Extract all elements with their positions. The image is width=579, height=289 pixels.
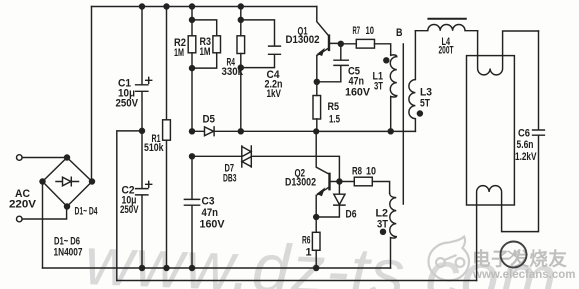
node B 4-way junction — [314, 129, 319, 134]
resistor R3 — [192, 20, 217, 36]
svg-text:3T: 3T — [374, 81, 383, 93]
watermark stamp marks — [508, 251, 518, 259]
capacitor C1 — [136, 7, 148, 131]
node C1-C2 midpoint — [140, 128, 145, 133]
svg-text:10: 10 — [366, 25, 375, 37]
diac D7 DB3 — [192, 146, 339, 182]
svg-text:R6: R6 — [302, 235, 311, 247]
svg-text:250V: 250V — [116, 98, 139, 110]
svg-text:3T: 3T — [377, 219, 388, 231]
watermark elecfans logo — [429, 237, 470, 281]
C2 plus sign — [146, 181, 152, 187]
diode D6 — [316, 182, 345, 218]
L1 phasing dot — [384, 58, 389, 63]
svg-text:D13002: D13002 — [285, 177, 316, 189]
svg-text:160V: 160V — [345, 87, 371, 99]
resistor R7 — [341, 43, 357, 45]
node C3 top — [190, 154, 195, 159]
resistor R8 — [339, 181, 354, 183]
lamp bottom filament — [477, 135, 539, 280]
svg-text:B: B — [396, 27, 403, 39]
node Q1 base — [338, 41, 343, 46]
svg-text:R7: R7 — [353, 25, 361, 37]
svg-text:1kV: 1kV — [267, 88, 282, 100]
svg-text:220V: 220V — [9, 199, 37, 211]
resistor R4 — [240, 7, 242, 36]
node Q1 emitter / C5 — [314, 79, 319, 84]
svg-text:DB3: DB3 — [223, 173, 237, 185]
Q1 emitter arrow — [318, 49, 325, 56]
node bridge right — [90, 179, 95, 184]
node Q2 emitter — [314, 215, 319, 220]
transistor Q2 D13002 — [316, 131, 339, 217]
svg-text:D13002: D13002 — [286, 34, 320, 46]
svg-text:www.elecfans.com: www.elecfans.com — [472, 269, 575, 281]
node C1 top — [140, 4, 145, 9]
svg-text:R8: R8 — [352, 166, 362, 178]
diode D5 — [192, 127, 241, 136]
svg-text:510k: 510k — [144, 142, 164, 154]
Q2 emitter arrow — [317, 188, 324, 196]
node R4C4 bottom junction — [238, 65, 243, 70]
bridge inner diode — [56, 177, 79, 186]
wire D5 row to node B — [241, 130, 316, 132]
L2 phasing dot — [381, 229, 386, 234]
svg-text:C6: C6 — [518, 128, 530, 140]
node R2R3 bottom — [190, 66, 195, 71]
wire AC top to bridge — [22, 157, 67, 159]
node L1 bottom — [388, 129, 393, 134]
svg-text:330k: 330k — [222, 66, 244, 78]
lamp tube outline — [467, 56, 515, 205]
node R6 bottom — [314, 266, 319, 271]
node Q2 base — [337, 179, 342, 184]
svg-text:5.6n: 5.6n — [517, 139, 534, 151]
resistor R5 — [316, 82, 318, 96]
svg-text:200T: 200T — [439, 45, 454, 57]
node C3 bottom — [190, 266, 195, 271]
wire AC bottom to bridge — [22, 207, 67, 220]
wire node B vertical — [402, 44, 404, 204]
wire bottom rail — [43, 267, 391, 269]
capacitor C6 — [533, 31, 545, 135]
inductor L2 — [390, 193, 397, 268]
svg-text:47n: 47n — [202, 207, 219, 219]
wire left edge (bridge + to top rail) — [91, 7, 93, 182]
svg-text:160V: 160V — [200, 219, 226, 231]
resistor R1 — [166, 7, 168, 120]
capacitor C5 — [317, 44, 348, 82]
node R2R3 top — [190, 17, 195, 22]
svg-text:1N4007: 1N4007 — [54, 247, 83, 259]
capacitor C2 — [136, 131, 148, 268]
capacitor C4 — [241, 20, 281, 68]
wire midpoint row — [117, 131, 142, 281]
wire outer bottom return — [117, 280, 477, 282]
wire node B row — [316, 130, 415, 132]
capacitor C3 — [184, 156, 199, 268]
wire bridge minus down — [42, 182, 44, 269]
svg-text:D1~ D4: D1~ D4 — [75, 206, 98, 218]
svg-text:1.5: 1.5 — [329, 114, 340, 126]
resistor R2 — [191, 7, 193, 36]
svg-text:C3: C3 — [202, 196, 215, 208]
node C2 bottom — [140, 266, 145, 271]
node bridge top — [65, 155, 70, 160]
svg-text:250V: 250V — [120, 204, 139, 216]
svg-text:D5: D5 — [203, 114, 216, 126]
node D5 left — [190, 129, 195, 134]
svg-text:1: 1 — [306, 247, 312, 259]
inductor L1 — [390, 55, 397, 131]
svg-text:10: 10 — [366, 166, 376, 178]
svg-text:D6: D6 — [346, 209, 357, 221]
inductor L3 — [409, 31, 416, 132]
AC terminal bottom — [17, 216, 23, 222]
node R1 top — [164, 4, 169, 9]
node bridge left — [40, 179, 45, 184]
C1 plus sign — [146, 77, 152, 83]
L3 phasing dot — [417, 111, 422, 116]
lamp top filament — [478, 31, 539, 75]
svg-text:1.2kV: 1.2kV — [515, 151, 537, 163]
wire top rail — [92, 6, 317, 8]
node D5 right (R4 column) — [238, 129, 243, 134]
node R4C4 top junction — [238, 17, 243, 22]
inductor L4 — [428, 18, 465, 20]
svg-text:1M: 1M — [200, 46, 211, 58]
resistor R6 — [315, 217, 317, 232]
node R4 top — [238, 4, 243, 9]
node bridge bottom — [65, 204, 70, 209]
svg-text:5T: 5T — [420, 98, 430, 110]
transistor Q1 D13002 — [317, 7, 341, 82]
svg-text:R5: R5 — [328, 101, 340, 113]
node R1 bottom — [164, 266, 169, 271]
node trigger column top — [190, 4, 195, 9]
watermark stamp circle — [501, 242, 527, 268]
svg-text:1M: 1M — [174, 47, 184, 59]
AC terminal top — [17, 155, 23, 161]
bridge rectifier D1-D4 diamond — [43, 158, 93, 207]
